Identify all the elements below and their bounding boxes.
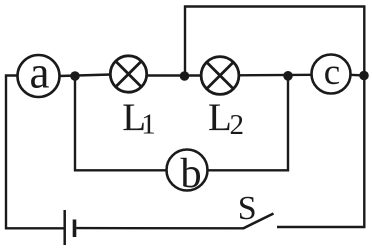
ammeter a: [18, 48, 60, 98]
wire a to L1: [60, 75, 112, 77]
svg-text:1: 1: [141, 109, 156, 141]
wire c to right vertical: [350, 74, 365, 77]
svg-text:a: a: [30, 48, 50, 98]
svg-text:S: S: [238, 190, 257, 227]
voltmeter b: [167, 150, 208, 198]
junction node 1: [70, 71, 80, 81]
svg-text:2: 2: [230, 109, 245, 141]
wire left side from ammeter a down to battery: [6, 76, 64, 229]
switch S blade: [243, 214, 274, 229]
svg-text:c: c: [324, 52, 340, 93]
junction node 3: [283, 71, 293, 81]
battery cell short plate: [73, 220, 77, 238]
wire L2 to voltmeter c: [238, 74, 313, 77]
wire top loop and right side: [185, 7, 364, 228]
lamp L1: [110, 56, 146, 92]
junction node 2: [180, 71, 190, 81]
wire L1 to L2: [146, 74, 202, 76]
lamp L2: [201, 57, 239, 95]
wire b branch left: [75, 76, 167, 170]
voltmeter c: [312, 52, 351, 93]
svg-text:L: L: [208, 96, 232, 139]
junction node 4: [359, 71, 369, 81]
wire battery to switch: [76, 227, 243, 230]
wire b branch right: [208, 76, 289, 170]
svg-text:b: b: [180, 150, 201, 197]
battery cell long plate: [63, 210, 66, 245]
